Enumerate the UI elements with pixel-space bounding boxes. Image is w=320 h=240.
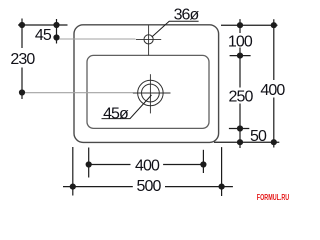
dim dot right top line B [271,22,277,28]
top-left dimension line [18,24,68,26]
dim dot 400 bottom right [200,161,206,167]
top-right dimension line [221,24,278,26]
dim dot 45 bottom [53,34,59,40]
svg-text:250: 250 [229,89,254,106]
centerline from 45-dim to faucet hole [57,38,136,40]
dim dot top-left corner [19,22,25,28]
dim dot right top line A [237,22,243,28]
svg-text:500: 500 [137,178,162,195]
svg-text:45: 45 [35,27,52,44]
svg-text:45ø: 45ø [103,105,129,122]
drain hole inner circle [142,84,160,102]
extension line at x=22 (230 dim) [21,19,23,100]
svg-text:400: 400 [260,82,285,99]
bottom 500 dimension line [63,186,233,188]
crossbar at bowl bottom level [229,128,249,130]
svg-text:230: 230 [10,51,35,68]
crossbar at bowl top level [230,55,251,57]
extension line at x=203.4 (400 right) [202,150,204,173]
svg-text:36ø: 36ø [174,7,200,24]
svg-text:FORMUL.RU: FORMUL.RU [257,194,289,202]
drain hole vertical centerline [149,74,151,113]
svg-text:400: 400 [135,157,160,174]
dim dot bowl top [237,53,243,59]
svg-text:50: 50 [250,128,267,145]
faucet hole vertical centerline [148,25,150,55]
right dimension line 100/250/50 [239,19,241,148]
right dimension line 400 [273,19,275,147]
dim dot bowl bottom [237,125,243,131]
dim dot basin bottom line B [271,139,277,145]
extension line at x=72.8 (500 left) [72,147,74,196]
extension line at x=56.5 (45 dim) [56,19,58,44]
dim dot 500 right [219,184,225,190]
bottom-right dimension line [214,141,279,143]
basin outer outline [74,25,219,143]
drain hole outer circle 45ø [138,80,164,106]
extension line at x=221.6 (500 right) [221,147,223,196]
faucet hole 36ø [144,35,153,44]
dim dot 230 bottom [19,89,25,95]
dim dot basin bottom line A [237,139,243,145]
faucet hole horizontal centerline [136,38,161,40]
extension line at x=88.7 (400 left) [88,148,90,178]
dim dot 400 bottom left [86,161,92,167]
bowl inner outline [87,55,209,128]
bottom 400 dimension line [89,164,204,166]
svg-text:100: 100 [228,33,253,50]
leader line for 36ø label [152,21,199,37]
leader line for 45ø label [102,95,152,119]
drain hole horizontal centerline [133,92,171,94]
dim dot 500 left [70,184,76,190]
centerline from 230-dim to drain hole [24,92,133,94]
dim dot 45 top [53,22,59,28]
